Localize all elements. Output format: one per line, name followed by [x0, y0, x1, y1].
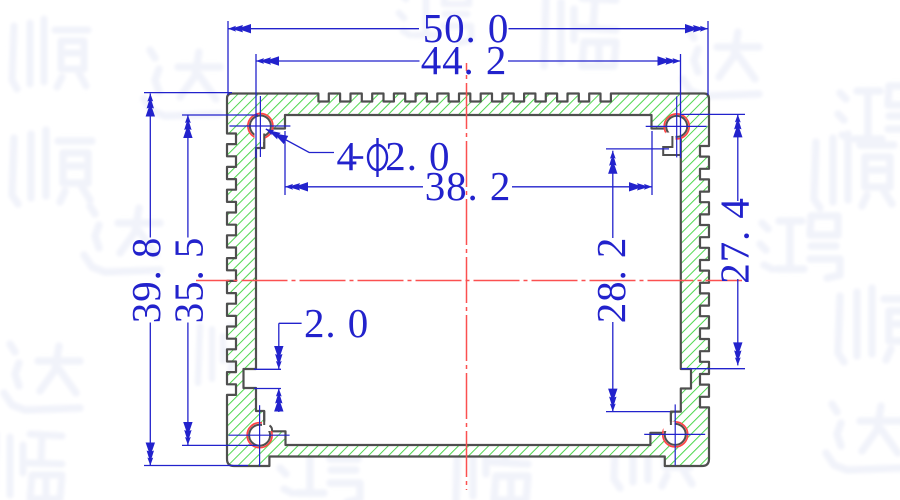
- svg-text:35. 5: 35. 5: [166, 237, 212, 324]
- svg-text:4: 4: [337, 133, 358, 179]
- svg-text:44. 2: 44. 2: [421, 37, 508, 83]
- svg-text:2. 0: 2. 0: [385, 133, 450, 179]
- svg-text:27. 4: 27. 4: [712, 197, 758, 284]
- svg-text:28. 2: 28. 2: [588, 237, 634, 324]
- svg-text:2. 0: 2. 0: [304, 300, 369, 346]
- svg-text:39. 8: 39. 8: [123, 237, 169, 324]
